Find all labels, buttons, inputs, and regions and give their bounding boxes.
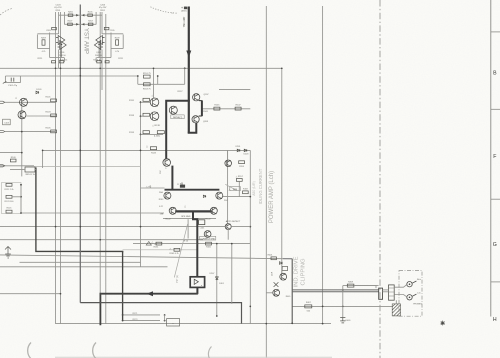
yst tie y15.2 R (80, 14, 102, 16)
svg-text:R101: R101 (46, 97, 52, 99)
resistor R103 (51, 114, 57, 117)
svg-text:△: △ (15, 97, 17, 100)
connector chevron IN2 (0, 130, 5, 132)
rail V9 x266.3 (265, 6, 267, 358)
resistor Rc L (52, 27, 57, 29)
resistor Rb2 R (105, 61, 109, 63)
input wire y131.6 (5, 131, 56, 133)
transistor Q219 (output) (216, 192, 223, 199)
resistor R401 (271, 257, 276, 260)
resistor Rt2 R (88, 23, 93, 25)
taps H27 (123, 314, 160, 316)
socket pins (389, 288, 395, 296)
col row2 wire (12, 196, 21, 198)
svg-text:△: △ (169, 247, 171, 250)
rail V4 x100.2 (99, 12, 101, 294)
node col2 (20, 196, 22, 198)
resistor Rt1 L (68, 14, 73, 16)
junction node 4 (99, 67, 101, 69)
zobel stub (187, 219, 189, 238)
transistor Q223 (204, 231, 211, 238)
transistor Q217 (output) (169, 207, 176, 214)
junction node 12 (140, 150, 142, 152)
junction node 16 (140, 226, 142, 228)
leader diagonal to note (174, 224, 187, 278)
yst tie y33.8 R (102, 33, 123, 35)
node col1 (20, 184, 22, 186)
q211 stub (227, 150, 229, 160)
transistor Q215 (output) (164, 192, 171, 199)
svg-text:C101 47p: C101 47p (8, 85, 18, 87)
svg-text:AUTO DETECT: AUTO DETECT (226, 220, 241, 223)
yst rail b R (95, 12, 97, 25)
inductor L101 (199, 220, 205, 225)
capacitor C401 (282, 267, 287, 271)
connector chevron IN1 (0, 101, 5, 103)
svg-text:R135: R135 (129, 132, 135, 134)
svg-text:(35V): (35V) (181, 11, 187, 13)
svg-text:R103: R103 (46, 112, 52, 114)
yst tie y48.5 L (37, 48, 49, 50)
junction node 24 (265, 323, 267, 325)
label tick box (184, 7, 187, 10)
wire H13 y293.7 (0, 293, 61, 295)
junction node 3 (79, 67, 81, 69)
yst rail d R (122, 35, 124, 49)
transistor pair R (94, 36, 104, 50)
resistor R123 (6, 195, 12, 198)
yst stub down R (101, 50, 103, 69)
node ad (249, 226, 251, 228)
capacitor C103 (3, 119, 11, 125)
diode D101 (36, 91, 39, 94)
svg-text:R0.22: R0.22 (205, 219, 211, 221)
wire V x231.8 (231, 244, 233, 304)
svg-text:G: G (493, 242, 497, 248)
column bus x21 (20, 185, 22, 213)
resistor R407 (305, 305, 312, 308)
diode D401 (280, 262, 283, 265)
junction node 17 (79, 226, 81, 228)
output emitter bar (thick) (175, 210, 212, 212)
clip wire 3 (281, 269, 283, 274)
reference star mark (441, 321, 445, 326)
node lr3 (291, 322, 293, 324)
resistor R133 (143, 113, 149, 116)
svg-text:D101: D101 (36, 89, 42, 91)
svg-text:2SC: 2SC (224, 200, 228, 202)
jack contact L (407, 295, 412, 300)
svg-text:△: △ (151, 241, 153, 244)
protect box (167, 319, 180, 326)
svg-text:CONNECT GND: CONNECT GND (200, 238, 215, 240)
wire H5a y165.8 (0, 165, 34, 167)
border tick y282 (491, 281, 500, 283)
junction node 22 (249, 196, 251, 198)
transistor pair L (56, 36, 66, 50)
svg-text:YST (L): YST (L) (177, 275, 179, 283)
junction arrow2 L (76, 23, 78, 26)
yst diff drop R (98, 44, 100, 58)
resistor R409 (347, 284, 354, 287)
node p1 (164, 314, 166, 316)
transistor Q201 (150, 98, 159, 107)
pair node L (61, 43, 63, 45)
stub x102 (101, 68, 103, 90)
transistor Q103 (18, 111, 26, 119)
node loop tap (184, 67, 186, 69)
rail V6 x140.5 (140, 101, 142, 267)
svg-text:2SA: 2SA (159, 191, 163, 194)
ground trunk (medium) (80, 303, 241, 324)
label plate SPK (230, 187, 241, 191)
bias feed (dark) (36, 167, 123, 321)
thick U-jog to driver (188, 123, 197, 133)
resistor R121 (6, 183, 12, 186)
diode D403 cross (274, 282, 279, 287)
yst tie y48.5 R (111, 48, 123, 50)
resistor Rt1 R (88, 14, 93, 16)
bias row3 wire (141, 133, 164, 135)
junction node 18 (55, 226, 57, 228)
clip wire 1 (283, 258, 292, 260)
svg-text:YST AMP: YST AMP (83, 28, 89, 54)
svg-text:B: B (493, 71, 497, 77)
VR feed wire (42, 150, 44, 168)
bias row1 wire (141, 101, 151, 103)
svg-text:R105: R105 (46, 128, 52, 130)
jack wire bot (383, 291, 389, 293)
zener D409 (340, 318, 345, 323)
svg-text:POWER AMP (Lch): POWER AMP (Lch) (269, 171, 275, 223)
yst tie y33.8 L (37, 33, 58, 35)
svg-text:A50 (L/R): A50 (L/R) (252, 181, 256, 196)
capacitor can arc 1 (28, 343, 31, 358)
taps H28 (123, 320, 160, 322)
transistor Q221 (output) (210, 207, 217, 214)
yst stub down L (58, 50, 60, 69)
junction arrow R (82, 14, 84, 17)
capacitor can arc 2 (93, 343, 96, 358)
resistor Rs L (42, 40, 45, 45)
pair node R (98, 43, 100, 45)
bias row2 wire (141, 115, 151, 117)
svg-text:R133: R133 (129, 115, 135, 117)
wire H bottom y323.6 (56, 323, 331, 325)
yst rail c L (49, 33, 51, 58)
junction node 9 (122, 251, 124, 253)
clipping drive drop (medium) (291, 259, 293, 324)
base rail x21.8 (21, 107, 23, 177)
yst rail a L (58, 12, 60, 34)
svg-text:PHONES: PHONES (413, 304, 422, 306)
wire H17 y108.8 (202, 108, 250, 110)
wire V16 x227.6 (227, 150, 229, 223)
svg-text:R163 4.7k: R163 4.7k (169, 253, 178, 255)
yst tie y57.5 L (50, 57, 64, 59)
yst tie y24.3 R (80, 23, 96, 25)
svg-text:R0.22: R0.22 (165, 219, 171, 221)
yst tie y15.2 L (59, 14, 81, 16)
capacitor can arc 3 (208, 347, 211, 358)
wire H16 y89.4 (219, 88, 250, 90)
svg-text:VR101 1k: VR101 1k (25, 174, 36, 176)
svg-text:2SC: 2SC (160, 170, 162, 174)
label plate CONNECT GND (200, 236, 216, 240)
svg-text:R409: R409 (348, 281, 354, 283)
svg-text:R123 100: R123 100 (5, 201, 15, 203)
svg-text:CLIP: CLIP (271, 271, 273, 276)
svg-text:R405: R405 (286, 296, 291, 298)
svg-text:IND. DRIVE: IND. DRIVE (294, 256, 300, 287)
connector chevron IN3 (0, 165, 5, 167)
border tick y109 (491, 108, 500, 110)
svg-text:R131: R131 (129, 100, 135, 102)
wire V7 x153.5 (153, 69, 155, 98)
svg-text:R183: R183 (159, 199, 164, 201)
resistor L501 (157, 131, 164, 134)
jack contact R (407, 282, 412, 287)
node col3 (20, 212, 22, 214)
wire H20 y218.4 (163, 217, 216, 219)
diode D207 (216, 277, 219, 280)
transistor Q207 (193, 94, 200, 101)
node relay out (197, 293, 199, 295)
svg-text:R151 75: R151 75 (143, 73, 152, 75)
speaker line drop (thick) (193, 211, 197, 276)
plug P101 (379, 288, 383, 299)
junction node 2 (60, 67, 62, 69)
bar ext left (141, 187, 165, 189)
wire H10 y249.8 (123, 249, 198, 251)
page corner trim mark (0, 9, 12, 16)
feed arrowhead (186, 51, 191, 58)
svg-text:0.22: 0.22 (159, 206, 163, 208)
bus H7 y226.6 (0, 226, 225, 228)
wire H2 y76 (5, 75, 137, 77)
svg-text:SPK: SPK (233, 189, 238, 191)
contact lever L (412, 294, 416, 296)
capacitor C101 (11, 78, 14, 82)
protect stub (164, 315, 166, 321)
node p2 (164, 320, 166, 322)
svg-text:△ R139: △ R139 (152, 124, 160, 127)
transistor Q401 (280, 273, 287, 280)
junction node 10 (42, 150, 44, 152)
jack link R (394, 285, 407, 288)
resistor Rc R (104, 27, 109, 29)
border tick y199 (491, 198, 500, 200)
input wire y152.6 (0, 152, 22, 154)
transistor Q213 (163, 159, 171, 167)
column frame (2, 183, 22, 214)
driver loop right side (thick) (201, 100, 203, 116)
node lr4 (322, 323, 324, 325)
resistor R143 (150, 147, 156, 150)
yst stub down2 L (64, 58, 66, 63)
junction arrow2 R (82, 23, 84, 26)
junction node 7 (60, 293, 62, 295)
node b3 (140, 134, 142, 136)
svg-text:Q207: Q207 (203, 94, 209, 96)
transistor Q205 (169, 106, 177, 114)
rail V5 x105.8 (105, 14, 107, 324)
thick branch to left (y100.8) (166, 101, 190, 159)
relay RY101 box (190, 277, 204, 288)
feed stub (238, 181, 240, 196)
speaker line to relay out (196, 288, 198, 294)
input loop left (5, 76, 20, 82)
resistor R157 (236, 179, 242, 182)
diode D205 (203, 195, 205, 197)
junction node 5 (153, 67, 155, 69)
yst tie y57.5 R (97, 57, 111, 59)
hp resistor link (354, 286, 376, 289)
svg-text:H: H (493, 317, 497, 323)
wire H11 y258.8 (sloped) (0, 255, 292, 259)
feed arrow A2 (146, 242, 151, 246)
diode D201 (237, 149, 240, 152)
wire H14 y306.4 (292, 305, 392, 307)
wire H3 y84.3 (138, 83, 185, 85)
node lr1 (322, 306, 324, 308)
svg-text:YMC AMP: YMC AMP (183, 16, 186, 27)
jack sleeve hatch (392, 304, 400, 316)
node b1 (140, 101, 142, 103)
junction node 15 (216, 243, 218, 245)
yst rail c R (110, 33, 112, 58)
transistor Q203 (150, 112, 159, 121)
junction node 25 (216, 315, 218, 317)
junction node 21 (21, 131, 23, 133)
junction node 23 (249, 306, 251, 308)
dotted leader to +B (151, 7, 178, 13)
node lr2 (342, 306, 344, 308)
page bottom edge shade (55, 356, 332, 358)
ground GND1 (5, 247, 11, 259)
svg-text:4.7k: 4.7k (115, 51, 119, 53)
headphone bus lower (292, 291, 378, 293)
resistor R153 (144, 83, 151, 86)
input wire y116 (27, 115, 56, 117)
resistor Rb R (97, 61, 102, 63)
resistor R165 (206, 242, 212, 245)
svg-text:R121 2.2k: R121 2.2k (4, 189, 13, 191)
wire H18 y196.6 (223, 196, 251, 198)
diode D203 (244, 149, 247, 152)
resistor R151 (144, 75, 151, 78)
svg-text:R137: R137 (178, 91, 184, 93)
svg-text:R153 75: R153 75 (143, 88, 152, 90)
leader diagonal 2 (225, 184, 236, 190)
yst rail a R (101, 12, 103, 34)
jack dash-dot frame (399, 271, 422, 317)
resistor R101 (51, 99, 57, 102)
wire V17 x216.8 (216, 244, 218, 316)
resistor R145 (214, 107, 220, 110)
fold line (dash-dot) (379, 0, 381, 358)
junction node 11 (79, 150, 81, 152)
node r-loop R (157, 75, 159, 77)
svg-text:R109: R109 (11, 157, 17, 159)
junction node 8 (100, 293, 102, 295)
transistor Q211 (225, 160, 232, 167)
resistor R147 (235, 107, 241, 110)
resistor R109 (10, 159, 16, 162)
thick drop below Q pre-driver (171, 166, 173, 190)
bus tap stub (342, 286, 344, 292)
svg-text:△ R157: △ R157 (236, 175, 244, 178)
svg-text:R147: R147 (236, 105, 242, 107)
resistor R163 (174, 248, 180, 251)
node b2 (140, 115, 142, 117)
loop stub top (199, 100, 202, 102)
wire H12 y266.8 (0, 266, 168, 268)
speaker return (thick) (100, 294, 197, 326)
node t1 (122, 314, 124, 316)
wire H9 y243.6 (133, 243, 250, 245)
main +B feed drop (thick) (188, 7, 190, 133)
relay coil triangle (194, 279, 198, 284)
svg-text:R407: R407 (306, 302, 312, 304)
node loop top (188, 67, 190, 69)
rail V10 x281.8 (281, 68, 283, 273)
border tick y32 (491, 31, 500, 33)
svg-text:F: F (493, 154, 496, 160)
svg-text:DRIVE(?): DRIVE(?) (173, 117, 183, 119)
yst rail b L (64, 12, 66, 25)
resistor Rb L (59, 61, 64, 63)
wire H15 y285.6 (343, 285, 379, 287)
vr link wire (10, 169, 36, 171)
svg-text:△: △ (184, 205, 186, 208)
junction node 20 (21, 152, 23, 154)
ad drop (227, 230, 229, 240)
bus H1 y68.5 (0, 67, 282, 69)
bus H8 y239.7 (0, 239, 203, 241)
center rail x80 (medium) (79, 5, 81, 303)
svg-text:SPK GND: SPK GND (181, 216, 191, 218)
label plate CN A501 (171, 115, 184, 119)
junction node 1 (55, 67, 57, 69)
svg-text:2SK150: 2SK150 (58, 55, 66, 57)
loop tap stub (184, 68, 186, 84)
jack link L (394, 295, 407, 297)
input wire y102.3 (5, 101, 56, 103)
headphone bus upper (292, 289, 378, 291)
node bus tap (342, 289, 344, 291)
junction node 14 (197, 243, 199, 245)
svg-text:CLIPPING: CLIPPING (301, 258, 307, 286)
dark blob comp (180, 185, 185, 188)
loop stub bottom (199, 115, 202, 117)
right border rule (490, 0, 492, 317)
jack sleeve stub (395, 300, 397, 304)
output rail bar (thick) (165, 189, 220, 191)
wire H11b y262.3 (20, 261, 141, 263)
contact lever R (412, 281, 416, 283)
loop R divider (138, 76, 158, 84)
yst stub down2 R (95, 58, 97, 63)
node t2 (122, 320, 124, 322)
junction node 13 (165, 150, 167, 152)
yst diff drop L (61, 44, 63, 58)
yst tie y24.3 L (65, 23, 81, 25)
wire H6 y213 (21, 212, 164, 214)
ad stub (231, 226, 250, 228)
resistor Rb2 L (52, 61, 56, 63)
resistor R131 (143, 98, 149, 101)
